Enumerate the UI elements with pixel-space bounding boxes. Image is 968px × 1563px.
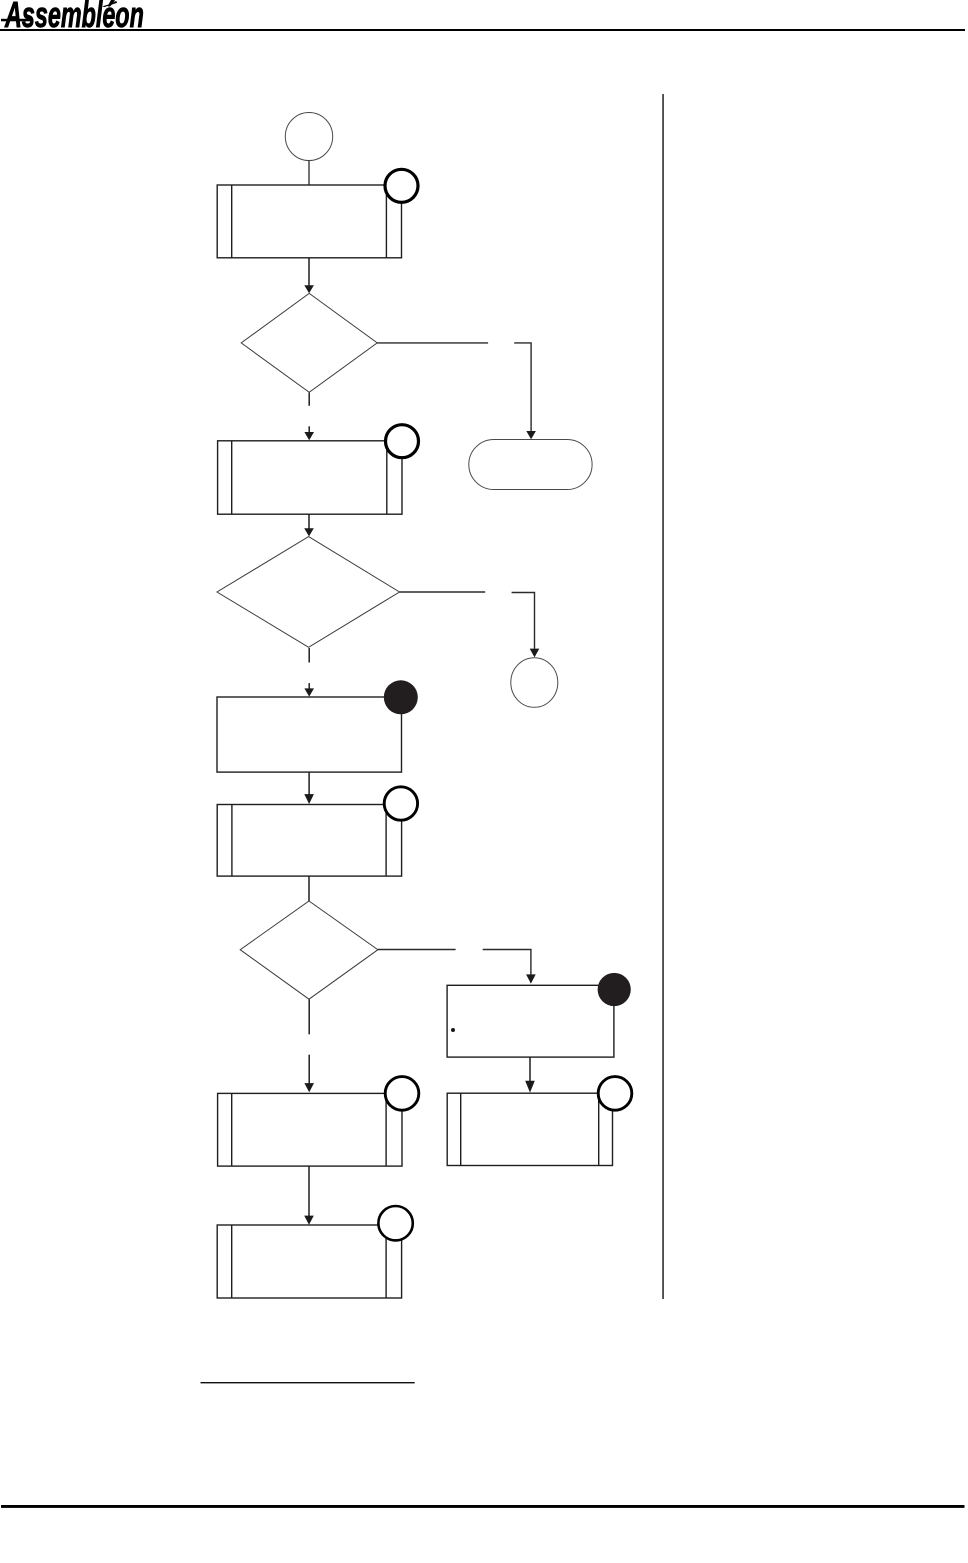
arrowhead into end circle bbox=[530, 649, 540, 658]
bottom rule bbox=[1, 1505, 965, 1508]
bullet dot inside process B bbox=[451, 1028, 455, 1032]
arrow diamond2 to process A bbox=[304, 648, 314, 697]
connector circle C-A filled bbox=[384, 680, 418, 714]
arrowhead into stadium bbox=[526, 431, 536, 439]
connector circle C3 bold bbox=[384, 787, 417, 820]
rect6 predefined process bbox=[217, 1225, 401, 1298]
rect3 predefined process bbox=[217, 805, 401, 877]
wire diamond1 right segment 1 bbox=[377, 342, 488, 344]
arrow diamond3 to rect4 bbox=[304, 999, 314, 1092]
arrow diamond1 to rect2 bbox=[304, 393, 314, 441]
arrowhead into process B bbox=[526, 974, 536, 983]
diamond2 decision bbox=[217, 537, 400, 648]
diamond3 decision bbox=[240, 901, 378, 999]
connector circle C6 bold bbox=[378, 1206, 412, 1240]
connector circle C4 bold bbox=[385, 1077, 419, 1111]
rect2 predefined process bbox=[218, 441, 402, 514]
connector circle C1 bold bbox=[385, 169, 418, 202]
connector circle C5 bold bbox=[598, 1077, 632, 1111]
rect4 predefined process bbox=[218, 1093, 402, 1166]
footnote rule bbox=[201, 1382, 415, 1383]
logo Assembleon bbox=[1, 0, 144, 35]
start circle bbox=[285, 113, 332, 161]
connector circle C2 bold bbox=[386, 425, 419, 458]
arrow rect1 to diamond1 bbox=[304, 258, 314, 293]
right border line bbox=[662, 94, 664, 1299]
stadium terminator bbox=[469, 440, 592, 490]
connector circle C-B filled bbox=[598, 973, 631, 1006]
diamond1 decision bbox=[241, 293, 377, 392]
arrow rect4 to rect6 bbox=[304, 1166, 314, 1225]
end circle bbox=[511, 658, 558, 708]
wire diamond1 right segment 2 with corner down bbox=[514, 343, 531, 431]
wire rect3 to diamond3 bbox=[308, 876, 310, 901]
wire diamond2 right segment 1 bbox=[400, 591, 486, 593]
arrow process B to rect5 bbox=[525, 1057, 535, 1093]
wire diamond3 right segment 2 with corner down bbox=[483, 950, 531, 975]
arrow rect2 to diamond2 bbox=[304, 514, 314, 536]
arrow process A to rect3 bbox=[304, 772, 314, 804]
process B plain rect bbox=[447, 985, 614, 1057]
rect1 predefined process bbox=[217, 185, 401, 258]
process A plain rect bbox=[217, 697, 402, 772]
wire diamond2 right segment 2 with corner down bbox=[512, 593, 535, 649]
wire diamond3 right segment 1 bbox=[378, 949, 456, 951]
wire start to rect1 bbox=[308, 161, 310, 186]
rect5 predefined process bbox=[447, 1093, 612, 1165]
top rule bbox=[0, 29, 965, 31]
